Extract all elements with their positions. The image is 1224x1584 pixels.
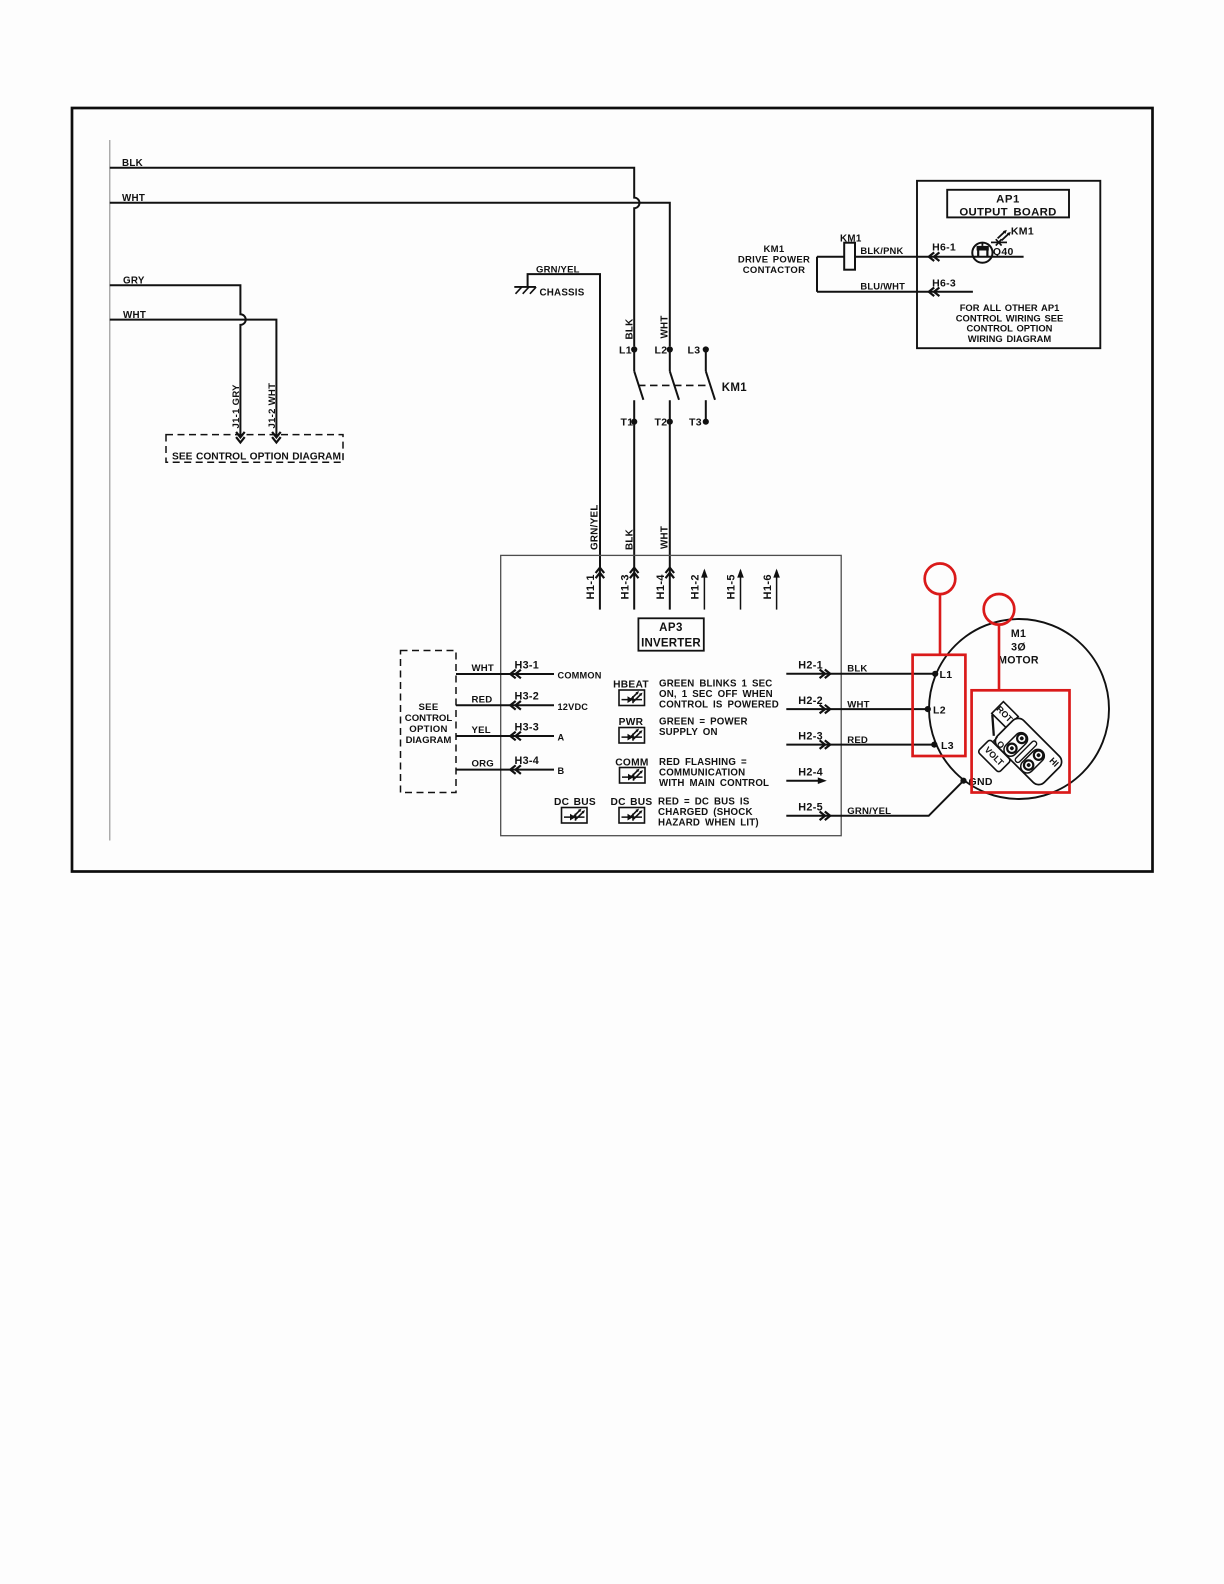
svg-text:AP1: AP1: [996, 194, 1020, 206]
svg-text:H2-5: H2-5: [798, 802, 823, 814]
svg-text:GREEN BLINKS 1 SEC: GREEN BLINKS 1 SEC: [659, 679, 773, 690]
svg-text:B: B: [558, 766, 565, 776]
svg-text:J1-2 WHT: J1-2 WHT: [267, 383, 278, 429]
svg-text:Q40: Q40: [993, 246, 1014, 258]
svg-text:12VDC: 12VDC: [558, 702, 589, 712]
svg-text:L3: L3: [941, 740, 954, 752]
svg-text:T2: T2: [655, 417, 668, 429]
svg-text:GREEN = POWER: GREEN = POWER: [659, 717, 748, 728]
svg-text:WHT: WHT: [847, 699, 869, 710]
svg-text:COMMON: COMMON: [558, 671, 602, 681]
svg-text:BLK/PNK: BLK/PNK: [860, 245, 903, 256]
svg-text:GRN/YEL: GRN/YEL: [589, 504, 600, 550]
svg-text:BLK: BLK: [847, 664, 867, 675]
svg-text:RED: RED: [847, 735, 868, 746]
svg-text:H1-4: H1-4: [655, 574, 667, 600]
svg-text:H1-5: H1-5: [726, 574, 738, 599]
svg-text:T3: T3: [689, 417, 702, 429]
svg-text:M1: M1: [1011, 628, 1026, 640]
svg-text:A: A: [558, 733, 565, 743]
svg-text:3Ø: 3Ø: [1011, 642, 1026, 654]
svg-text:OPTION: OPTION: [409, 724, 448, 735]
svg-text:H6-1: H6-1: [932, 241, 956, 253]
svg-text:OUTPUT BOARD: OUTPUT BOARD: [959, 206, 1056, 218]
svg-text:AP3: AP3: [659, 622, 683, 634]
svg-text:T1: T1: [621, 417, 634, 429]
svg-text:COMM: COMM: [615, 757, 648, 768]
svg-text:CONTROL: CONTROL: [405, 713, 453, 724]
svg-text:BLK: BLK: [624, 318, 635, 339]
svg-text:GRY: GRY: [123, 276, 145, 287]
svg-text:WIRING DIAGRAM: WIRING DIAGRAM: [968, 333, 1052, 344]
svg-text:ORG: ORG: [472, 759, 494, 770]
svg-text:SUPPLY ON: SUPPLY ON: [659, 727, 718, 738]
svg-text:H3-2: H3-2: [515, 691, 540, 703]
svg-text:L1: L1: [619, 345, 632, 357]
svg-text:DIAGRAM: DIAGRAM: [406, 735, 452, 746]
svg-text:HBEAT: HBEAT: [613, 679, 649, 690]
svg-text:KM1: KM1: [722, 382, 747, 394]
svg-text:L2: L2: [655, 345, 668, 357]
svg-text:WHT: WHT: [659, 526, 670, 549]
svg-text:J1-1 GRY: J1-1 GRY: [231, 384, 242, 429]
svg-text:WHT: WHT: [659, 315, 670, 338]
svg-text:CONTROL IS POWERED: CONTROL IS POWERED: [659, 700, 779, 711]
svg-text:PWR: PWR: [619, 717, 644, 728]
svg-text:DC BUS: DC BUS: [610, 797, 652, 808]
svg-text:KM1: KM1: [764, 244, 785, 255]
svg-text:L3: L3: [688, 345, 701, 357]
svg-text:H3-4: H3-4: [515, 755, 540, 767]
svg-text:H3-3: H3-3: [515, 721, 540, 733]
svg-text:L2: L2: [933, 704, 946, 716]
svg-text:HAZARD WHEN LIT): HAZARD WHEN LIT): [658, 818, 759, 829]
svg-text:INVERTER: INVERTER: [641, 637, 701, 649]
svg-text:H3-1: H3-1: [515, 659, 540, 671]
svg-text:CHASSIS: CHASSIS: [540, 287, 585, 298]
svg-text:H1-1: H1-1: [585, 574, 597, 599]
svg-text:H1-6: H1-6: [762, 574, 774, 599]
svg-text:WHT: WHT: [122, 193, 145, 204]
svg-text:DRIVE POWER: DRIVE POWER: [738, 254, 810, 265]
svg-text:BLK: BLK: [624, 529, 635, 550]
svg-text:SEE: SEE: [418, 702, 438, 713]
svg-text:H6-3: H6-3: [932, 277, 956, 289]
svg-text:RED: RED: [472, 694, 493, 705]
svg-text:CHARGED (SHOCK: CHARGED (SHOCK: [658, 807, 753, 818]
svg-text:SEE CONTROL OPTION DIAGRAM: SEE CONTROL OPTION DIAGRAM: [172, 452, 341, 463]
svg-text:H1-3: H1-3: [619, 574, 631, 599]
svg-text:COMMUNICATION: COMMUNICATION: [659, 768, 745, 779]
svg-text:H2-3: H2-3: [798, 730, 823, 742]
svg-text:H2-2: H2-2: [798, 695, 823, 707]
svg-text:CONTACTOR: CONTACTOR: [743, 265, 806, 276]
svg-text:BLU/WHT: BLU/WHT: [860, 280, 905, 291]
svg-text:RED = DC BUS IS: RED = DC BUS IS: [658, 797, 750, 808]
svg-text:MOTOR: MOTOR: [998, 655, 1039, 667]
svg-text:GRN/YEL: GRN/YEL: [847, 806, 891, 817]
svg-text:YEL: YEL: [472, 725, 491, 736]
svg-text:H2-4: H2-4: [798, 766, 823, 778]
svg-text:WHT: WHT: [472, 663, 494, 674]
svg-text:ON, 1 SEC OFF WHEN: ON, 1 SEC OFF WHEN: [659, 689, 773, 700]
svg-text:BLK: BLK: [122, 158, 143, 169]
svg-text:RED FLASHING =: RED FLASHING =: [659, 757, 747, 768]
svg-text:H1-2: H1-2: [690, 574, 702, 599]
svg-text:WITH MAIN CONTROL: WITH MAIN CONTROL: [659, 778, 769, 789]
svg-text:L1: L1: [940, 669, 953, 681]
svg-text:WHT: WHT: [123, 310, 146, 321]
svg-text:DC BUS: DC BUS: [554, 797, 596, 808]
svg-text:KM1: KM1: [840, 234, 862, 245]
svg-text:H2-1: H2-1: [798, 660, 823, 672]
svg-text:KM1: KM1: [1011, 226, 1034, 238]
